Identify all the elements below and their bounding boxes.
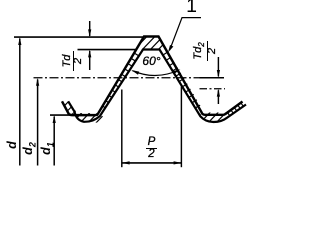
pitch line (dash-dot)	[34, 77, 225, 79]
d2 dimension line with up arrow	[36, 78, 39, 166]
d dimension line with up arrow	[18, 37, 21, 165]
callout label 1 (nominal profile)	[184, 0, 200, 17]
inner (min material) profile	[68, 50, 246, 123]
d1 label	[40, 141, 53, 156]
d1 dimension line with up arrow	[53, 115, 56, 165]
60 degree arc with arrows	[131, 69, 180, 75]
crest line (d level)	[14, 36, 144, 38]
hatching of tolerance zone band	[22, 27, 320, 150]
d2 label	[22, 141, 35, 156]
displaced pitch line (dash-dot)	[200, 88, 226, 90]
P/2 extension lines	[121, 90, 123, 168]
right partial band rungs	[227, 102, 244, 116]
leader for label 1	[168, 18, 201, 53]
P/2 dimension line with arrows	[122, 161, 182, 164]
solid pitch segment right	[200, 77, 225, 79]
Td/2 rotated fraction	[63, 51, 83, 71]
d label	[6, 138, 18, 152]
flank ladder rungs	[102, 52, 200, 108]
thread angle label 60 deg	[139, 55, 165, 68]
Td2/2 upper arrow (down onto pitch line)	[217, 57, 220, 78]
P/2 fraction	[146, 137, 157, 159]
reduced crest line (d - Td)	[78, 49, 138, 51]
Td2/2 lower arrow (up onto displaced pitch line)	[217, 89, 220, 104]
Td/2 lower arrow (up onto reduced crest line)	[88, 50, 91, 70]
Td2/2 rotated fraction	[194, 41, 214, 61]
outer (max material) profile	[62, 37, 243, 116]
Td/2 upper arrow (down onto crest line)	[88, 21, 91, 37]
d1 level line + left valley chord	[50, 114, 98, 116]
